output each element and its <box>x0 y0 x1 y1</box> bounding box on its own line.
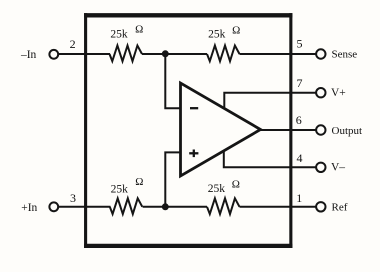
svg-text:Ω: Ω <box>232 25 240 37</box>
terminal circle Ref pin 1 <box>316 202 325 211</box>
op-amp non-inverting input plus sign <box>189 152 198 154</box>
resistor R4 25k (bottom right) <box>207 198 240 214</box>
svg-text:25k: 25k <box>208 183 226 195</box>
terminal circle Sense pin 5 <box>316 49 325 58</box>
svg-text:V–: V– <box>331 162 345 174</box>
wire: node B up to op-amp non-inverting input <box>165 152 181 206</box>
svg-text:Ref: Ref <box>332 201 348 213</box>
svg-text:4: 4 <box>297 151 303 165</box>
resistor R2 25k (top right) <box>207 46 240 62</box>
wire: -In terminal to resistor R1 <box>58 53 110 55</box>
svg-text:2: 2 <box>70 37 76 51</box>
wire: +In terminal to resistor R3 <box>58 206 111 208</box>
resistor R3 25k (bottom left) <box>110 198 143 214</box>
wire: R1 to node A <box>142 53 207 55</box>
svg-text:25k: 25k <box>110 29 128 41</box>
wire: V+ pin 7 to op-amp top <box>224 93 317 110</box>
svg-text:6: 6 <box>296 113 302 127</box>
svg-text:25k: 25k <box>111 183 129 195</box>
terminal circle V- pin 4 <box>316 163 325 172</box>
resistor R1 25k (top left) <box>110 46 143 62</box>
terminal circle +In pin 3 <box>49 202 58 211</box>
wire: op-amp bottom to V- pin 4 <box>224 152 317 168</box>
svg-text:25k: 25k <box>208 29 226 41</box>
op-amp A1 triangle <box>181 83 261 176</box>
wire: R2 to Sense terminal pin 5 <box>240 53 318 55</box>
svg-text:–In: –In <box>20 49 37 61</box>
wire: op-amp output to pin 6 <box>258 129 317 131</box>
node B junction dot <box>162 203 169 210</box>
svg-text:Output: Output <box>332 125 363 137</box>
terminal circle V+ pin 7 <box>316 88 325 97</box>
IC package outline box bottom edge <box>84 244 292 248</box>
IC package outline box left edge <box>84 13 87 248</box>
svg-text:Ω: Ω <box>135 24 143 36</box>
svg-text:Sense: Sense <box>332 49 358 61</box>
wire: node A down to op-amp inverting input <box>165 54 181 108</box>
svg-text:Ω: Ω <box>232 178 240 190</box>
wire: R3 to node B <box>143 206 207 208</box>
IC package outline box right edge <box>289 13 292 248</box>
wire: R4 to Ref terminal pin 1 <box>240 206 318 208</box>
svg-text:3: 3 <box>70 191 76 205</box>
svg-text:Ω: Ω <box>135 176 143 188</box>
svg-text:+In: +In <box>21 202 37 214</box>
op-amp inverting input minus sign <box>190 107 198 109</box>
svg-text:7: 7 <box>297 76 303 90</box>
svg-text:V+: V+ <box>331 87 346 99</box>
terminal circle Output pin 6 <box>316 125 325 134</box>
node A junction dot <box>162 50 169 57</box>
svg-text:1: 1 <box>296 191 302 205</box>
IC package outline box top edge <box>84 13 292 17</box>
svg-text:5: 5 <box>297 37 303 51</box>
terminal circle -In pin 2 <box>49 50 58 59</box>
